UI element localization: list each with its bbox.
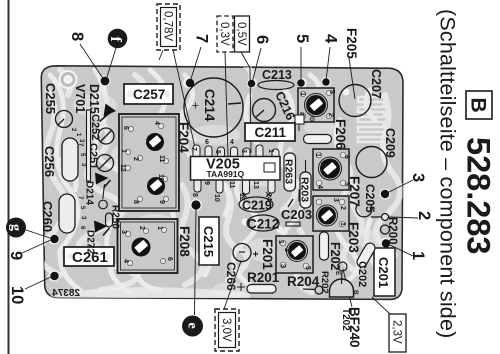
svg-text:1: 1 bbox=[277, 240, 284, 244]
transistor V701 circle bbox=[56, 111, 73, 128]
voltage label 0,3V bbox=[217, 16, 233, 52]
svg-text:F206: F206 bbox=[333, 119, 348, 150]
svg-text:1: 1 bbox=[120, 149, 127, 153]
svg-text:10: 10 bbox=[213, 194, 220, 202]
svg-text:4: 4 bbox=[122, 259, 129, 263]
coil F206 body bbox=[304, 135, 332, 144]
svg-text:3: 3 bbox=[279, 264, 286, 268]
svg-text:B: B bbox=[352, 290, 359, 295]
transistor T202 bbox=[330, 262, 360, 297]
voltage label 0,5V bbox=[235, 16, 250, 52]
svg-text:C205: C205 bbox=[363, 184, 377, 213]
svg-text:10: 10 bbox=[8, 286, 26, 304]
svg-text:8: 8 bbox=[132, 200, 139, 204]
label box C211 bbox=[245, 123, 295, 141]
svg-text:2: 2 bbox=[138, 226, 145, 230]
svg-text:g: g bbox=[8, 224, 23, 231]
leader e wire bbox=[195, 209, 197, 315]
dot pin5 bbox=[297, 79, 305, 87]
leader pin2 bbox=[389, 217, 418, 218]
trimmer F207 bbox=[313, 149, 362, 207]
capacitor C205 bbox=[356, 205, 390, 234]
diode D272 bbox=[94, 221, 110, 236]
leader 0,3V bbox=[225, 52, 228, 156]
svg-text:1: 1 bbox=[339, 222, 346, 226]
svg-text:e: e bbox=[185, 323, 200, 329]
svg-text:2: 2 bbox=[415, 211, 433, 220]
svg-text:C257: C257 bbox=[133, 87, 165, 102]
svg-text:0,3V: 0,3V bbox=[218, 22, 230, 46]
trimmer core bottom bbox=[147, 177, 165, 195]
svg-text:1: 1 bbox=[299, 92, 306, 96]
svg-text:V701: V701 bbox=[73, 84, 87, 113]
leader pin6 bbox=[252, 48, 261, 83]
shield bar bbox=[87, 110, 91, 181]
svg-text:C201: C201 bbox=[376, 257, 391, 288]
svg-text:1: 1 bbox=[156, 226, 163, 230]
svg-text:+: + bbox=[189, 102, 203, 109]
mounting hole bbox=[59, 70, 78, 89]
leader pin10 bbox=[25, 276, 53, 289]
voltage label 2,3V bbox=[389, 314, 406, 352]
svg-text:6: 6 bbox=[166, 257, 173, 261]
svg-text:C252: C252 bbox=[89, 114, 101, 140]
resistor R204 bbox=[287, 274, 323, 294]
svg-text:F208: F208 bbox=[177, 226, 192, 257]
trimmer cap C216 bbox=[253, 89, 298, 122]
svg-text:R250: R250 bbox=[110, 205, 121, 229]
svg-text:D272: D272 bbox=[85, 230, 96, 254]
svg-text:F203: F203 bbox=[346, 222, 361, 253]
svg-text:C215: C215 bbox=[201, 226, 216, 257]
svg-text:6: 6 bbox=[253, 35, 271, 44]
svg-text:4: 4 bbox=[316, 185, 323, 189]
svg-text:10: 10 bbox=[157, 174, 164, 182]
filter block F208 bbox=[118, 219, 193, 273]
svg-text:3: 3 bbox=[332, 198, 339, 202]
capacitor C219 bbox=[239, 197, 273, 213]
svg-text:C207: C207 bbox=[369, 69, 383, 99]
svg-text:f: f bbox=[107, 37, 124, 43]
voltage label 3,0V bbox=[215, 309, 239, 351]
dot pin4 bbox=[322, 78, 330, 86]
edge dots bbox=[50, 77, 390, 281]
svg-text:28374: 28374 bbox=[52, 288, 80, 299]
svg-text:D215: D215 bbox=[87, 84, 101, 114]
trimmer cap C252 bbox=[98, 128, 114, 144]
resistor R203 bbox=[299, 160, 312, 208]
leader pin9 bbox=[22, 239, 53, 253]
leader pin3 bbox=[387, 180, 413, 193]
svg-text:11: 11 bbox=[228, 181, 235, 189]
svg-text:+: + bbox=[249, 251, 260, 257]
page edge line bbox=[8, 0, 10, 354]
svg-text:F201: F201 bbox=[260, 239, 275, 270]
leader pin5 bbox=[300, 47, 302, 82]
svg-text:C260: C260 bbox=[40, 201, 55, 232]
dot pin10 bbox=[50, 272, 58, 280]
capacitor C203 bbox=[281, 199, 312, 226]
label box C215 bbox=[199, 217, 219, 265]
small pin box of F206 bbox=[295, 115, 304, 131]
diode D214 bbox=[95, 173, 111, 200]
svg-text:9: 9 bbox=[158, 200, 165, 204]
svg-text:14: 14 bbox=[265, 193, 272, 201]
leader 0,78V bbox=[173, 50, 196, 152]
svg-text:R203: R203 bbox=[299, 177, 311, 202]
svg-text:9: 9 bbox=[203, 181, 210, 185]
svg-text:C209: C209 bbox=[383, 128, 397, 158]
capacitor C266 bbox=[224, 244, 260, 292]
resistor F202 body bbox=[320, 232, 343, 271]
svg-text:⊙: ⊙ bbox=[308, 116, 315, 122]
pad rings bbox=[49, 76, 392, 282]
svg-text:1: 1 bbox=[267, 149, 274, 153]
via mark bbox=[237, 283, 245, 291]
svg-text:R200: R200 bbox=[386, 217, 398, 245]
svg-text:C211: C211 bbox=[255, 125, 287, 140]
label box C261 bbox=[64, 247, 114, 266]
label box C257 bbox=[124, 84, 173, 104]
svg-text:4: 4 bbox=[153, 121, 160, 125]
dot pin7 bbox=[186, 79, 194, 87]
svg-text:R204: R204 bbox=[287, 274, 320, 289]
junction dot e bbox=[191, 200, 200, 209]
leader pin4 bbox=[326, 47, 330, 81]
capacitor C202 bbox=[355, 241, 377, 287]
trimmer cap C251 bbox=[97, 155, 114, 172]
circled e bbox=[182, 316, 203, 337]
trimmer F205 bbox=[298, 28, 359, 122]
svg-text:TAA991Q: TAA991Q bbox=[207, 169, 245, 179]
dot pin3 bbox=[381, 190, 389, 198]
svg-text:2,3V: 2,3V bbox=[391, 320, 403, 344]
capacitor C213 bbox=[258, 68, 294, 90]
leader 0,5V bbox=[241, 52, 251, 153]
trimmer core top bbox=[146, 133, 164, 151]
leader 2,3V bbox=[372, 297, 390, 314]
dot pin6 bbox=[248, 80, 256, 88]
extra trace texture bbox=[39, 65, 400, 292]
svg-text:R263: R263 bbox=[283, 159, 295, 184]
svg-text:5: 5 bbox=[214, 150, 221, 154]
diode D215 bbox=[100, 104, 117, 122]
svg-text:0,5V: 0,5V bbox=[235, 22, 247, 46]
svg-text:6: 6 bbox=[343, 155, 350, 159]
svg-text:C255: C255 bbox=[43, 83, 58, 114]
copper traces (light) bbox=[50, 70, 375, 292]
svg-text:7: 7 bbox=[193, 34, 211, 43]
capacitor C207 bbox=[339, 85, 371, 117]
capacitor C212 bbox=[247, 215, 279, 232]
svg-text:2: 2 bbox=[132, 157, 139, 161]
svg-text:12: 12 bbox=[238, 193, 245, 201]
svg-text:13: 13 bbox=[252, 181, 259, 189]
svg-text:2: 2 bbox=[283, 248, 290, 252]
trimmer F203 bbox=[313, 196, 361, 253]
svg-text:3: 3 bbox=[319, 162, 326, 166]
svg-text:3: 3 bbox=[120, 230, 127, 234]
leader 3,0V bbox=[224, 261, 241, 309]
svg-text:2: 2 bbox=[339, 206, 346, 210]
tiny pin digits left bbox=[70, 128, 86, 230]
leader f bbox=[106, 48, 116, 80]
svg-text:6: 6 bbox=[205, 139, 209, 146]
dot pin9 bbox=[50, 235, 58, 243]
svg-text:F202: F202 bbox=[328, 242, 342, 271]
svg-text:C266: C266 bbox=[224, 262, 238, 291]
PCB board outline bbox=[41, 66, 403, 300]
svg-text:3: 3 bbox=[240, 149, 247, 153]
leg 0,78V bbox=[159, 50, 163, 60]
small pin box 3 of F203 bbox=[299, 190, 310, 210]
leader F205 bbox=[349, 58, 355, 99]
circled f bbox=[107, 29, 127, 49]
svg-text:5: 5 bbox=[293, 34, 311, 43]
svg-text:12: 12 bbox=[119, 164, 126, 172]
leader g bbox=[26, 230, 53, 239]
svg-text:(Schaltteilseite – component s: (Schaltteilseite – component side) bbox=[436, 9, 460, 338]
x marks IC pins bbox=[242, 192, 271, 198]
svg-text:C251: C251 bbox=[87, 143, 99, 169]
svg-text:BF240: BF240 bbox=[347, 307, 362, 348]
resistor R250 bbox=[99, 200, 113, 227]
svg-text:528.283: 528.283 bbox=[461, 137, 497, 254]
leader pin8 bbox=[80, 44, 104, 80]
svg-text:4: 4 bbox=[322, 34, 340, 44]
capacitor C256 body bbox=[62, 138, 78, 181]
leader pin7 bbox=[190, 47, 201, 82]
svg-text:R201: R201 bbox=[247, 270, 280, 285]
resistor R263 bbox=[283, 153, 296, 191]
svg-text:3,0V: 3,0V bbox=[220, 318, 232, 342]
capacitor C260 body bbox=[59, 194, 75, 233]
trimmer core bbox=[132, 238, 151, 257]
svg-text:R202: R202 bbox=[319, 271, 330, 294]
label box C201 bbox=[374, 248, 395, 296]
leader T202 bbox=[343, 269, 352, 307]
svg-text:5: 5 bbox=[304, 266, 311, 270]
svg-text:0,78V: 0,78V bbox=[162, 11, 174, 41]
svg-text:F205: F205 bbox=[344, 28, 359, 59]
capacitor C209 bbox=[356, 147, 387, 178]
svg-text:11: 11 bbox=[158, 155, 165, 163]
capacitor C214 (electrolytic) bbox=[184, 78, 243, 137]
sheet letter B bbox=[466, 91, 492, 119]
svg-text:C214: C214 bbox=[202, 89, 217, 122]
svg-text:C203: C203 bbox=[281, 207, 312, 222]
svg-text:C256: C256 bbox=[42, 146, 57, 177]
svg-text:F204: F204 bbox=[176, 122, 191, 153]
svg-text:E: E bbox=[334, 271, 341, 276]
dot pin1 bbox=[382, 239, 390, 247]
svg-text:C212: C212 bbox=[247, 217, 279, 232]
svg-text:2: 2 bbox=[327, 113, 334, 117]
svg-text:4: 4 bbox=[230, 139, 234, 146]
trimmer F201 bbox=[260, 236, 313, 273]
svg-text:1: 1 bbox=[314, 153, 321, 157]
IC V205 TAA991 bbox=[190, 139, 280, 202]
svg-text:C202: C202 bbox=[356, 261, 368, 287]
resistor R201 bbox=[247, 270, 280, 293]
circled g bbox=[6, 218, 26, 238]
svg-text:D214: D214 bbox=[84, 181, 95, 205]
white bottom strip bbox=[48, 287, 250, 298]
svg-text:6: 6 bbox=[122, 126, 129, 130]
leader pin1 bbox=[388, 244, 413, 256]
voltage label 0,78V bbox=[157, 4, 180, 50]
svg-text:C213: C213 bbox=[262, 68, 292, 82]
svg-text:5: 5 bbox=[328, 90, 335, 94]
svg-text:8: 8 bbox=[191, 193, 198, 197]
filter block F204 bbox=[119, 114, 191, 211]
meander trace right side bbox=[358, 97, 384, 142]
dot pin8/f bbox=[101, 77, 110, 86]
svg-text:8: 8 bbox=[68, 32, 86, 41]
svg-text:B: B bbox=[467, 98, 490, 113]
